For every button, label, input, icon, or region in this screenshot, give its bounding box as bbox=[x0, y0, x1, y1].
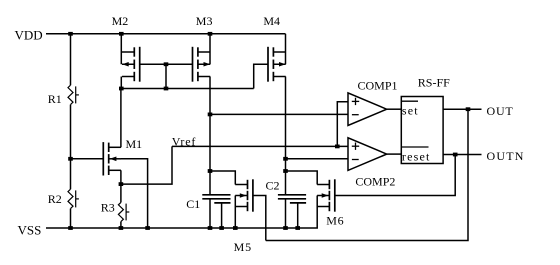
wire C2 node to M6 drain bbox=[286, 171, 318, 185]
wire C1 bottom plate to VSS bbox=[209, 199, 211, 228]
wire M3 drain down to C1 node bbox=[209, 77, 211, 195]
wire M1 drain up to gate bus bbox=[120, 89, 122, 148]
node VDD-R1 junction bbox=[68, 32, 73, 36]
node M2 drain-gate bus junction bbox=[119, 87, 124, 91]
wire M2 gate lead bbox=[139, 63, 166, 65]
wire M4 gate lead to bus bbox=[254, 64, 269, 88]
resistor R2 bbox=[68, 189, 73, 208]
svg-text:C1: C1 bbox=[186, 197, 200, 211]
node M5 source-VSS junction bbox=[233, 226, 238, 230]
node C1-VSS junction bbox=[208, 226, 213, 230]
wire divider to M1 gate bbox=[71, 158, 104, 160]
wire Vref rail to COMP2 + input bbox=[172, 145, 348, 147]
node OUTN feedback junction bbox=[453, 153, 458, 157]
node M3 drain - COMP1 junction bbox=[208, 113, 213, 117]
capacitor C1 (MOS cap) bbox=[202, 194, 230, 196]
svg-text:M4: M4 bbox=[263, 14, 280, 28]
svg-text:VSS: VSS bbox=[18, 222, 42, 237]
svg-text:M6: M6 bbox=[326, 214, 344, 228]
wire C1 node to M5 drain bbox=[210, 171, 235, 185]
svg-text:reset: reset bbox=[402, 149, 431, 163]
transistor M6 (NMOS discharge switch) bbox=[328, 180, 330, 189]
node OUT feedback junction bbox=[466, 107, 471, 111]
node M3 source at VDD bbox=[208, 32, 213, 36]
wire VDD rail corner down to M4 source bbox=[285, 34, 287, 64]
svg-text:M3: M3 bbox=[196, 14, 213, 28]
resistor R1 bbox=[68, 85, 73, 104]
node M1 source junction bbox=[119, 182, 124, 186]
wire C2 node to COMP2 - input bbox=[286, 158, 349, 160]
transistor M5 (NMOS discharge switch) bbox=[247, 180, 249, 189]
COMP1 plus sign bbox=[352, 100, 359, 102]
node M4 drain - COMP2 junction bbox=[283, 157, 288, 161]
resistor R3 bbox=[118, 202, 123, 221]
svg-text:M1: M1 bbox=[126, 137, 143, 151]
wire OUT bbox=[443, 108, 481, 110]
node C2-VSS junction bbox=[283, 226, 288, 230]
node M4 drain - M6 junction bbox=[283, 169, 288, 173]
svg-text:set: set bbox=[402, 104, 419, 118]
transistor M1 (NMOS bias) bbox=[108, 143, 110, 152]
svg-text:OUTN: OUTN bbox=[487, 149, 525, 163]
wire M5 source/bulk to VSS bbox=[234, 196, 236, 229]
wire C1 bulk to VSS bbox=[221, 203, 223, 228]
COMP1 + input wire from Vref bbox=[337, 102, 348, 147]
wire COMP2 output to reset bbox=[387, 153, 402, 155]
wire OUTN bbox=[443, 154, 481, 156]
wire mirror gate bus bbox=[121, 88, 253, 90]
node M2 source at VDD bbox=[119, 32, 124, 36]
wire M2 drain down to gate bus bbox=[120, 77, 122, 89]
svg-text:COMP2: COMP2 bbox=[355, 174, 395, 188]
wire M6 gate to OUTN feedback bbox=[335, 155, 455, 196]
wire C2 bulk to VSS bbox=[297, 203, 299, 228]
svg-text:C2: C2 bbox=[266, 179, 280, 193]
svg-text:R3: R3 bbox=[101, 201, 115, 215]
svg-text:R1: R1 bbox=[48, 92, 62, 106]
wire M1 bulk lead to VSS bbox=[121, 159, 148, 228]
COMP2 minus sign bbox=[352, 159, 359, 161]
wire M1 source to Vref corner bbox=[121, 146, 172, 184]
wire COMP1 output to set bbox=[387, 108, 402, 110]
wire R1 to R2 bbox=[70, 105, 72, 190]
wire C2 bottom plate to VSS bbox=[285, 199, 287, 228]
op-amp COMP2 bbox=[348, 138, 387, 171]
node C2 bulk-VSS junction bbox=[295, 226, 300, 230]
transistor M4 (PMOS mirror) bbox=[272, 47, 274, 56]
node Vref - COMP1 riser junction bbox=[335, 145, 340, 149]
wire C1 node to COMP1 - input bbox=[210, 113, 348, 115]
svg-text:R2: R2 bbox=[48, 192, 62, 206]
wire M4 drain down to C2 node bbox=[285, 77, 287, 195]
node M2-M3 gate junction bbox=[164, 62, 169, 66]
node gate bus junction bbox=[164, 87, 169, 91]
wire R3 to VSS bbox=[120, 222, 122, 228]
node R3-VSS junction bbox=[119, 226, 124, 230]
node C1 bulk-VSS junction bbox=[219, 226, 224, 230]
wire R2 to VSS bbox=[70, 209, 72, 228]
wire M1 source down bbox=[120, 170, 122, 184]
transistor M3 (PMOS mirror) bbox=[197, 47, 199, 56]
capacitor C2 (MOS cap) bbox=[278, 194, 306, 196]
svg-text:COMP1: COMP1 bbox=[358, 78, 398, 92]
COMP2 plus sign bbox=[352, 145, 359, 147]
COMP1 minus sign bbox=[352, 114, 359, 116]
wire M1 source to R3 bbox=[120, 184, 122, 202]
node M1 bulk-VSS junction bbox=[145, 226, 150, 230]
svg-text:OUT: OUT bbox=[487, 104, 514, 118]
RS-FF block U1 bbox=[401, 97, 443, 164]
transistor M2 (PMOS diode-connected) bbox=[133, 47, 135, 56]
svg-text:M5: M5 bbox=[234, 240, 252, 254]
svg-text:VDD: VDD bbox=[15, 27, 43, 42]
node R2-VSS junction bbox=[68, 226, 73, 230]
wire VDD rail bbox=[46, 33, 286, 35]
op-amp COMP1 bbox=[348, 93, 387, 126]
node R1-R2 divider junction bbox=[68, 157, 73, 161]
svg-text:M2: M2 bbox=[112, 14, 129, 28]
svg-text:RS-FF: RS-FF bbox=[418, 76, 450, 90]
wire OUT feedback to M5 gate bbox=[266, 109, 468, 240]
wire M2 source/bulk to VDD bbox=[120, 34, 122, 64]
wire M3 source/bulk to VDD bbox=[209, 34, 211, 64]
wire VDD to R1 bbox=[70, 34, 72, 85]
node M3 drain - M5 junction bbox=[208, 169, 213, 173]
wire M5 gate to feedback bbox=[253, 196, 266, 241]
wire gate junction riser bbox=[165, 64, 167, 88]
wire M3 gate lead bbox=[166, 63, 193, 65]
wire VSS rail with corner up to M6 source bbox=[46, 196, 317, 229]
